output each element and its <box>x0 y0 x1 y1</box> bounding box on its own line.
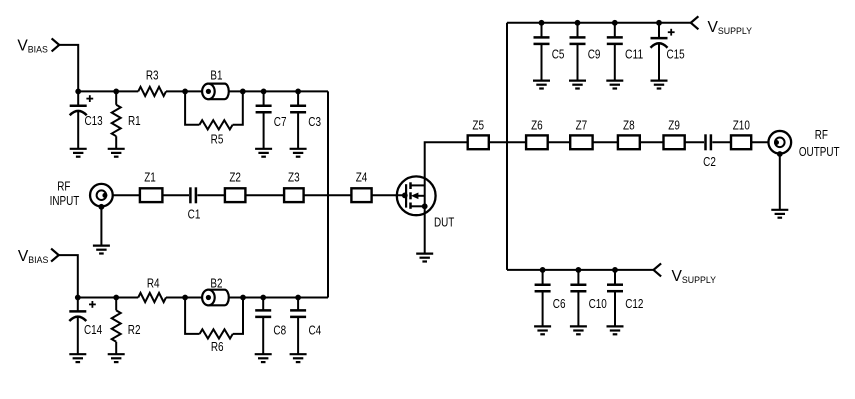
connector arrow V_SUPPLY bottom <box>654 263 662 276</box>
wire Z9 to C2 <box>685 141 704 143</box>
node: junction after B1 <box>240 89 246 95</box>
svg-text:Z2: Z2 <box>229 170 241 185</box>
node: DUT source junction <box>422 203 428 209</box>
svg-text:R1: R1 <box>128 113 141 128</box>
wire V_BIAS top to bias rail <box>59 45 78 92</box>
capacitor C3 <box>295 89 301 95</box>
svg-text:C8: C8 <box>273 323 286 338</box>
wire Z2 to Z3 <box>245 194 284 196</box>
capacitor C8 <box>260 295 266 301</box>
ground under C7 <box>255 149 272 157</box>
svg-text:C3: C3 <box>308 114 321 129</box>
ground under C15 <box>651 81 668 89</box>
svg-text:C4: C4 <box>309 323 322 338</box>
impedance Z10 <box>731 135 751 149</box>
node: junction after B2 <box>240 295 246 301</box>
capacitor C9 <box>575 20 581 26</box>
capacitor C2 (series) <box>706 134 711 150</box>
resistor R2 <box>113 295 119 301</box>
svg-text:R2: R2 <box>128 322 141 337</box>
wire C2 to Z10 <box>712 141 731 143</box>
wire bottom bias rail C14 to R4 <box>78 297 138 299</box>
wire R3 to B1 <box>166 90 202 92</box>
impedance Z8 <box>618 135 640 149</box>
svg-text:C2: C2 <box>703 154 716 169</box>
DUT body arrow <box>418 195 425 197</box>
svg-text:C9: C9 <box>588 47 601 62</box>
connector arrow V_BIAS top <box>52 38 60 51</box>
DUT channel segments <box>409 182 412 209</box>
svg-text:C5: C5 <box>552 47 565 62</box>
svg-text:C7: C7 <box>274 114 287 129</box>
ground under C11 <box>606 81 623 89</box>
ground under C5 <box>533 81 550 89</box>
connector arrow V_SUPPLY top <box>691 16 699 29</box>
impedance Z5 <box>468 135 489 149</box>
capacitor C6 <box>540 267 546 273</box>
wire B1 to vertical connector <box>229 90 328 92</box>
wire Z4 to DUT gate <box>372 194 405 196</box>
ground under RF input connector <box>93 246 110 254</box>
svg-text:RF: RF <box>815 127 828 142</box>
svg-text:R6: R6 <box>211 339 224 354</box>
svg-text:Z5: Z5 <box>472 118 484 133</box>
svg-text:Z10: Z10 <box>733 118 750 133</box>
svg-text:C15: C15 <box>667 47 685 62</box>
impedance Z7 <box>570 135 592 149</box>
wire Z1 to C1 <box>162 194 189 196</box>
wire R4 to B2 <box>166 297 202 299</box>
node: bottom bias rail junction at C14 <box>75 295 81 301</box>
wire B2 to vertical connector <box>229 297 328 299</box>
svg-text:C1: C1 <box>188 207 201 222</box>
svg-text:R4: R4 <box>147 275 160 290</box>
svg-text:B1: B1 <box>210 68 222 83</box>
node: R5 loop left junction <box>182 89 188 95</box>
node: gate junction <box>402 193 408 199</box>
ground under R1 <box>108 149 125 157</box>
svg-text:Z8: Z8 <box>623 118 635 133</box>
ground under C13 <box>70 149 87 157</box>
resistor R3 <box>138 87 166 96</box>
transistor DUT (MOSFET) <box>397 176 436 215</box>
capacitor C11 <box>612 20 618 26</box>
connector RF INPUT (coax jack) <box>90 184 113 207</box>
svg-text:C6: C6 <box>553 296 566 311</box>
wire bottom V_SUPPLY rail <box>507 269 654 271</box>
svg-text:RF: RF <box>57 178 70 193</box>
ground under DUT source <box>416 254 433 262</box>
capacitor C1 (series) <box>190 187 196 203</box>
wire Z8 to Z9 <box>640 141 664 143</box>
svg-text:Z9: Z9 <box>668 118 680 133</box>
svg-text:Z4: Z4 <box>356 170 368 185</box>
resistor R1 <box>113 89 119 95</box>
wire Z5 to Z6 (crosses supply feed) <box>489 141 526 143</box>
capacitor C4 <box>295 295 301 301</box>
svg-text:Z1: Z1 <box>144 170 156 185</box>
capacitor C14 (polarized) <box>89 301 96 308</box>
node: input connector shield <box>99 204 105 210</box>
wire top bias rail C13 to R3 <box>78 90 138 92</box>
ground under C12 <box>607 326 624 334</box>
wire Z10 to RF output connector <box>751 141 768 143</box>
capacitor C10 <box>576 267 582 273</box>
capacitor C13 (polarized) <box>86 95 93 102</box>
connector arrow V_BIAS bottom <box>51 249 59 262</box>
svg-text:C10: C10 <box>589 296 607 311</box>
svg-text:DUT: DUT <box>434 214 454 229</box>
resistor R5 (parallel loop under B1) <box>185 91 199 124</box>
wire RF input connector to Z1 <box>113 194 140 196</box>
ferrite bead B2 <box>202 290 229 306</box>
wire input shield to ground <box>100 207 102 245</box>
ferrite bead B1 <box>202 84 229 100</box>
node: top bias rail junction at C13 <box>75 89 81 95</box>
ground under C3 <box>290 149 307 157</box>
svg-text:Z3: Z3 <box>288 170 300 185</box>
resistor R6 (parallel loop under B2) <box>185 298 200 334</box>
svg-text:C12: C12 <box>625 296 643 311</box>
wire Z6 to Z7 <box>548 141 571 143</box>
svg-text:R5: R5 <box>211 132 224 147</box>
ground under RF output connector <box>771 210 788 218</box>
wire top V_SUPPLY rail <box>507 22 691 24</box>
ground under C8 <box>255 354 272 362</box>
wire output shield to ground <box>779 154 781 209</box>
svg-text:C13: C13 <box>85 113 103 128</box>
ground under C10 <box>570 326 587 334</box>
resistor R4 <box>138 293 166 302</box>
DUT drain stub <box>411 184 425 186</box>
DUT gate bar <box>405 184 407 207</box>
impedance Z1 <box>140 188 163 202</box>
impedance Z6 <box>526 135 548 149</box>
capacitor C12 <box>612 267 618 273</box>
svg-text:Z7: Z7 <box>576 118 588 133</box>
node: output connector shield <box>777 151 783 157</box>
capacitor C5 <box>539 20 545 26</box>
ground under C4 <box>290 354 307 362</box>
svg-text:OUTPUT: OUTPUT <box>799 144 840 159</box>
impedance Z3 <box>284 188 304 202</box>
svg-text:C11: C11 <box>625 47 643 62</box>
capacitor C15 (polarized) <box>656 20 662 26</box>
DUT source stub <box>411 205 425 207</box>
ground under C14 <box>69 354 86 362</box>
impedance Z4 <box>351 188 371 202</box>
wire V_BIAS bottom to bias rail <box>59 255 78 297</box>
node: R6 loop left junction <box>182 295 188 301</box>
impedance Z2 <box>225 188 246 202</box>
impedance Z9 <box>664 135 685 149</box>
wire Z7 to Z8 <box>593 141 618 143</box>
wire vertical bias connector (top rail to bottom rail) <box>327 91 329 297</box>
ground under R2 <box>108 354 125 362</box>
capacitor C7 <box>261 89 267 95</box>
wire supply feed vertical (top rail to bottom rail) <box>506 23 508 270</box>
wire C1 to Z2 <box>197 194 225 196</box>
svg-text:R3: R3 <box>146 68 159 83</box>
svg-text:INPUT: INPUT <box>50 193 80 208</box>
svg-text:B2: B2 <box>210 275 222 290</box>
wire DUT drain up to output line <box>425 142 468 253</box>
wire Z3 to Z4 (crosses bias connector) <box>304 194 352 196</box>
svg-text:C14: C14 <box>84 322 102 337</box>
ground under C9 <box>569 81 586 89</box>
ground under C6 <box>534 326 551 334</box>
svg-text:Z6: Z6 <box>531 118 543 133</box>
connector RF OUTPUT (coax jack) <box>768 131 791 154</box>
